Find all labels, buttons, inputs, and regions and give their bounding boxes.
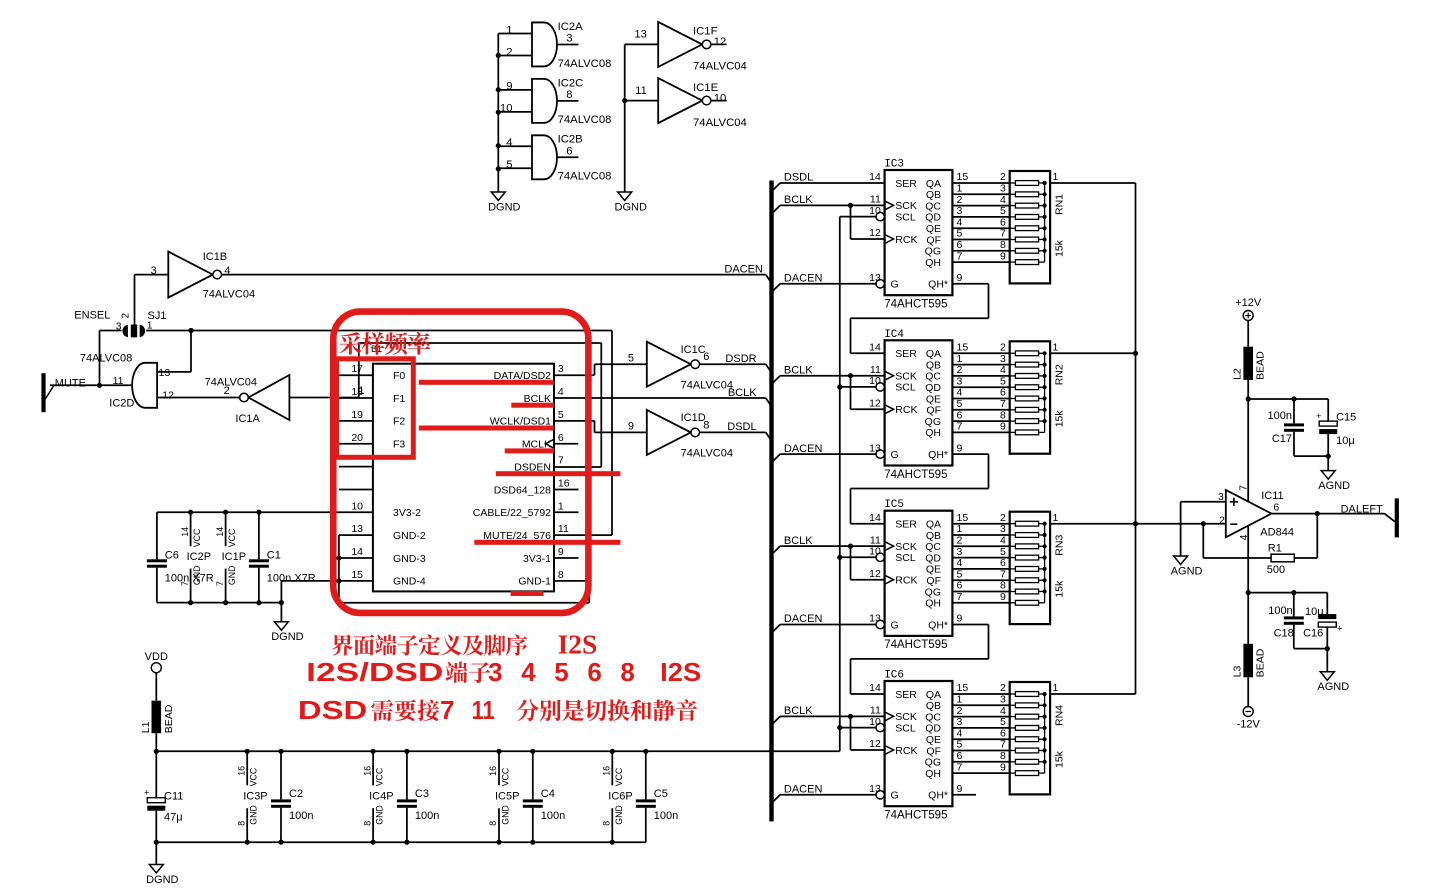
svg-text:+12V: +12V: [1235, 297, 1262, 309]
red note line 3: DSD需要接7 11 分别是切换和静音: [298, 695, 697, 725]
svg-text:3V3-2: 3V3-2: [393, 507, 421, 519]
svg-text:11: 11: [870, 194, 881, 206]
resistor network RN1 15k: [1010, 171, 1066, 283]
svg-text:9: 9: [506, 81, 512, 93]
svg-text:BEAD: BEAD: [1255, 648, 1267, 677]
svg-text:-12V: -12V: [1237, 719, 1261, 731]
svg-text:DGND: DGND: [488, 202, 520, 214]
svg-text:11: 11: [472, 695, 495, 725]
svg-text:9: 9: [957, 783, 963, 795]
svg-text:1: 1: [957, 353, 963, 365]
wire net BCLK from bus to IC3 SCK/RCK: [772, 203, 885, 239]
solder jumper SJ1: [116, 310, 167, 337]
svg-text:QC: QC: [925, 541, 941, 553]
pin label 9 QH* (IC5): [957, 613, 963, 625]
svg-text:1: 1: [957, 183, 963, 195]
power VDD: [145, 651, 168, 673]
svg-text:SCL: SCL: [895, 211, 916, 223]
wire C18/C16 bottom join to AGND: [1294, 646, 1330, 672]
wire connector pin3 DATA/DSD2 to IC1C input: [554, 364, 647, 375]
svg-text:DACEN: DACEN: [784, 613, 823, 625]
svg-text:74ALVC04: 74ALVC04: [693, 117, 747, 129]
svg-text:1: 1: [506, 24, 512, 36]
svg-text:IC2C: IC2C: [558, 77, 584, 89]
svg-text:1: 1: [1053, 171, 1059, 183]
svg-text:QB: QB: [926, 189, 941, 201]
wire net DACEN from bus to IC4 G: [772, 454, 877, 463]
svg-text:RCK: RCK: [895, 745, 917, 757]
capacitor C6 100n X7R: [147, 512, 214, 602]
svg-text:GND-4: GND-4: [393, 576, 426, 588]
svg-text:IC4P: IC4P: [369, 790, 393, 802]
svg-text:SCK: SCK: [895, 711, 917, 723]
net label DSDR (left of bus): [725, 353, 756, 365]
svg-text:15: 15: [957, 171, 969, 183]
net label DACEN (IC3): [784, 273, 823, 285]
svg-text:C4: C4: [541, 788, 555, 800]
net label DACEN (left of bus): [724, 264, 763, 276]
wire MUTE to IC2D output: [50, 383, 132, 388]
label ENSEL: [74, 309, 110, 321]
connector pin 15 GND-4 (left): [339, 569, 426, 588]
svg-text:9: 9: [957, 272, 963, 284]
svg-text:2: 2: [506, 46, 512, 58]
svg-text:7: 7: [957, 421, 963, 433]
svg-text:15k: 15k: [1053, 750, 1065, 768]
svg-text:74AHCT595: 74AHCT595: [884, 469, 947, 481]
AND gate IC2B (74ALVC08): [498, 134, 611, 183]
svg-text:7: 7: [1000, 739, 1006, 751]
red underlines on connector pin names: [419, 380, 621, 596]
svg-text:C18: C18: [1274, 627, 1294, 639]
svg-text:7: 7: [440, 695, 454, 725]
AND gate IC2C (74ALVC08): [498, 77, 611, 126]
net label DSDL (left of bus): [727, 421, 756, 433]
shift register IC3 74AHCT595 body: [869, 159, 952, 311]
wires IC5 outputs QA-QH to RN3: [952, 512, 1009, 603]
svg-text:7: 7: [558, 455, 564, 467]
svg-text:6: 6: [957, 580, 963, 592]
svg-text:7: 7: [957, 761, 963, 773]
svg-text:RN3: RN3: [1053, 535, 1065, 556]
svg-text:74ALVC04: 74ALVC04: [681, 448, 733, 460]
power pins IC2P: [180, 512, 211, 602]
wires IC4 outputs QA-QH to RN2: [952, 342, 1009, 433]
svg-text:VCC: VCC: [192, 528, 202, 547]
svg-text:GND-1: GND-1: [518, 576, 551, 588]
svg-text:3V3-1: 3V3-1: [523, 553, 551, 565]
svg-text:QB: QB: [926, 530, 941, 542]
svg-text:13: 13: [634, 29, 647, 41]
svg-text:G: G: [891, 619, 899, 631]
svg-text:12: 12: [714, 36, 727, 48]
svg-text:DACEN: DACEN: [784, 784, 823, 796]
svg-text:2: 2: [957, 364, 963, 376]
wire net DACEN from bus to IC5 G: [772, 625, 877, 634]
capacitor C1 100n X7R: [249, 512, 316, 602]
capacitor C2 100n: [271, 751, 313, 842]
svg-text:2: 2: [1219, 515, 1225, 527]
svg-text:7: 7: [1237, 485, 1249, 491]
svg-text:11: 11: [870, 364, 881, 376]
svg-text:6: 6: [566, 145, 572, 157]
red note line 2: I2S/DSD端子3 4 5 6 8 I2S: [306, 657, 701, 687]
svg-text:100n: 100n: [541, 810, 565, 822]
wire net DACEN from bus to IC3 G: [772, 284, 877, 293]
svg-text:9: 9: [1000, 591, 1006, 603]
svg-text:15: 15: [957, 512, 969, 524]
wire net DACEN from IC1B to bus: [135, 275, 772, 325]
svg-text:5: 5: [558, 409, 564, 421]
connector pin 10 3V3-2 (left): [351, 500, 421, 519]
wire chain from IC4 QH* to IC5 SER: [851, 454, 989, 524]
svg-text:QH*: QH*: [928, 790, 948, 802]
ground DGND (left block): [271, 603, 303, 644]
svg-text:8: 8: [488, 821, 498, 826]
red text 采样频率: [339, 332, 430, 355]
wire SCL stub IC3: [840, 216, 876, 218]
connector pin 14 GND-3 (left): [339, 546, 426, 565]
svg-text:BCLK: BCLK: [784, 194, 813, 206]
connector pin 11 MUTE/24_576 (right): [483, 523, 569, 542]
svg-text:8: 8: [1000, 239, 1006, 251]
shift register IC4 74AHCT595 body: [869, 329, 952, 481]
svg-text:8: 8: [602, 821, 612, 826]
svg-text:10: 10: [351, 500, 363, 512]
svg-text:G: G: [891, 790, 899, 802]
svg-text:4: 4: [957, 216, 963, 228]
capacitor C15 10u (polarized): [1316, 399, 1356, 456]
svg-text:9: 9: [1000, 421, 1006, 433]
svg-text:QD: QD: [925, 552, 941, 564]
svg-text:2: 2: [957, 705, 963, 717]
net label BCLK (IC6): [784, 705, 813, 717]
wire op-amp output to DALEFT: [1272, 511, 1395, 522]
svg-text:SCK: SCK: [895, 541, 917, 553]
wire C17/C15 bottom join to AGND: [1294, 454, 1331, 471]
svg-text:74ALVC08: 74ALVC08: [558, 58, 612, 70]
svg-text:AD844: AD844: [1260, 527, 1294, 539]
power pins IC5P: [488, 751, 519, 842]
svg-text:IC1F: IC1F: [693, 26, 718, 38]
capacitor C3 100n: [397, 751, 439, 842]
inverter IC1B (74ALVC04): [151, 251, 255, 300]
svg-text:74AHCT595: 74AHCT595: [884, 810, 947, 822]
svg-text:2: 2: [1000, 682, 1006, 694]
connector pin 4 BCLK (right): [524, 386, 564, 405]
svg-text:QC: QC: [925, 371, 941, 383]
svg-text:QD: QD: [925, 212, 941, 224]
svg-text:VCC: VCC: [375, 767, 385, 786]
svg-text:5: 5: [628, 353, 634, 365]
inverter IC1D (74ALVC04): [628, 410, 733, 460]
svg-text:2: 2: [957, 535, 963, 547]
svg-text:DACEN: DACEN: [784, 273, 823, 285]
connector pin 20 F3 (left): [339, 432, 406, 451]
wire chain from IC5 QH* to IC6 SER: [851, 625, 989, 695]
svg-text:MUTE: MUTE: [55, 377, 86, 389]
wire net BCLK from bus to IC5 SCK/RCK: [772, 544, 885, 580]
bus vertical: [769, 181, 773, 822]
pin label 9 QH* (IC4): [957, 442, 963, 454]
capacitor C16 10u (polarized): [1303, 593, 1342, 649]
svg-text:4: 4: [1000, 705, 1006, 717]
svg-text:L1: L1: [140, 721, 152, 733]
connector pin 7 DSDEN (right): [514, 455, 564, 474]
svg-text:BCLK: BCLK: [784, 535, 813, 547]
svg-text:7: 7: [957, 591, 963, 603]
svg-text:16: 16: [602, 766, 612, 776]
svg-text:6: 6: [587, 657, 601, 687]
svg-text:13: 13: [869, 783, 881, 795]
wire IC1A output to IC2D pin12: [157, 397, 240, 399]
svg-text:G: G: [891, 449, 899, 461]
ground AGND (C16/C18): [1317, 672, 1349, 694]
svg-text:3: 3: [957, 546, 963, 558]
svg-text:12: 12: [869, 568, 881, 580]
svg-text:74ALVC04: 74ALVC04: [203, 288, 255, 300]
wire op-amp +input to AGND: [1181, 502, 1226, 556]
svg-text:10μ: 10μ: [1336, 435, 1355, 447]
svg-text:QC: QC: [925, 200, 941, 212]
svg-text:VCC: VCC: [227, 528, 237, 547]
port DALEFT: [1341, 498, 1399, 537]
svg-text:IC2P: IC2P: [187, 551, 211, 563]
svg-text:CABLE/22_5792: CABLE/22_5792: [473, 507, 551, 519]
wires IC3 outputs QA-QH to RN1: [952, 171, 1009, 262]
svg-text:BCLK: BCLK: [784, 364, 813, 376]
svg-text:QA: QA: [926, 519, 941, 531]
svg-text:7: 7: [1000, 398, 1006, 410]
wire inverter input tie vertical: [622, 44, 627, 192]
svg-text:6: 6: [957, 750, 963, 762]
svg-text:100n: 100n: [654, 810, 678, 822]
svg-text:9: 9: [1000, 250, 1006, 262]
ground DGND (inverter cluster): [615, 192, 647, 214]
svg-text:8: 8: [362, 821, 372, 826]
svg-text:9: 9: [957, 442, 963, 454]
svg-text:QG: QG: [925, 416, 941, 428]
svg-text:AGND: AGND: [1171, 566, 1203, 578]
capacitor C18 100n: [1268, 593, 1304, 649]
svg-text:3: 3: [488, 657, 502, 687]
svg-text:8: 8: [558, 569, 564, 581]
op-amp IC11 AD844: [1218, 485, 1294, 541]
svg-text:SCK: SCK: [895, 371, 917, 383]
svg-text:I2S/DSD: I2S/DSD: [306, 657, 443, 687]
svg-text:74ALVC04: 74ALVC04: [693, 61, 747, 73]
svg-text:IC3: IC3: [884, 159, 904, 171]
svg-text:100n: 100n: [1268, 605, 1292, 617]
inverter IC1C (74ALVC04): [628, 342, 733, 392]
svg-text:QH*: QH*: [928, 449, 948, 461]
svg-text:QH: QH: [925, 768, 941, 780]
svg-text:7: 7: [180, 581, 190, 586]
wire GND rail (bottom): [154, 840, 646, 845]
connector pin 18 F1 (left): [339, 386, 406, 405]
wire net BCLK from bus to IC6 SCK/RCK: [772, 714, 885, 750]
svg-text:4: 4: [1000, 194, 1006, 206]
port MUTE: [41, 373, 86, 412]
svg-text:GND: GND: [375, 805, 385, 825]
svg-text:14: 14: [215, 527, 225, 537]
svg-text:L3: L3: [1232, 665, 1244, 677]
wire RN3 pin1 to summing line: [1050, 512, 1135, 524]
svg-text:+: +: [1337, 624, 1342, 634]
resistor network RN2 15k: [1010, 341, 1066, 453]
svg-text:15: 15: [957, 682, 969, 694]
svg-text:2: 2: [121, 313, 132, 319]
svg-text:12: 12: [162, 390, 174, 402]
svg-text:8: 8: [236, 821, 246, 826]
AND gate IC2A (74ALVC08): [498, 21, 611, 70]
ground AGND (op-amp +input): [1171, 556, 1203, 578]
connector B1 body: [371, 344, 554, 591]
wire AND-gate input tie vertical: [496, 34, 501, 193]
svg-text:14: 14: [869, 682, 881, 694]
svg-text:GND-3: GND-3: [393, 553, 426, 565]
svg-text:QH: QH: [925, 257, 941, 269]
svg-text:SER: SER: [895, 689, 917, 701]
svg-text:C1: C1: [267, 550, 281, 562]
svg-text:15k: 15k: [1053, 410, 1065, 428]
svg-text:14: 14: [351, 546, 363, 558]
svg-text:IC2A: IC2A: [558, 21, 584, 33]
ground AGND (C15/C17): [1318, 471, 1350, 493]
svg-text:20: 20: [351, 432, 363, 444]
svg-text:47μ: 47μ: [164, 812, 183, 824]
svg-text:4: 4: [957, 557, 963, 569]
svg-text:5: 5: [1000, 716, 1006, 728]
svg-text:C11: C11: [164, 791, 183, 803]
wire SCL chain vertical to VCC rail: [839, 217, 841, 752]
svg-text:IC1D: IC1D: [681, 412, 706, 424]
red inner box around F0-F3: [337, 359, 414, 458]
svg-text:1: 1: [957, 523, 963, 535]
svg-text:VDD: VDD: [145, 651, 168, 663]
svg-text:100n: 100n: [289, 810, 313, 822]
wire IC2D pin13: [157, 371, 191, 373]
svg-text:DSD: DSD: [298, 695, 367, 725]
svg-text:16: 16: [236, 766, 246, 776]
svg-text:6: 6: [1000, 216, 1006, 228]
svg-text:1: 1: [1053, 512, 1059, 524]
label 74ALVC08 (IC2D): [80, 353, 132, 365]
svg-text:RN1: RN1: [1053, 194, 1065, 215]
svg-text:1: 1: [1053, 342, 1059, 354]
svg-text:+: +: [1316, 411, 1321, 421]
svg-text:12: 12: [869, 398, 881, 410]
svg-text:RCK: RCK: [895, 575, 917, 587]
wire net BCLK from bus to IC4 SCK/RCK: [772, 373, 885, 409]
svg-text:13: 13: [159, 367, 171, 379]
svg-text:DGND: DGND: [271, 631, 303, 643]
svg-text:74ALVC04: 74ALVC04: [205, 377, 257, 389]
svg-text:SER: SER: [895, 348, 917, 360]
svg-text:IC1P: IC1P: [222, 551, 246, 563]
svg-text:IC3P: IC3P: [243, 790, 267, 802]
svg-text:10: 10: [869, 716, 881, 728]
svg-text:IC1C: IC1C: [681, 344, 706, 356]
svg-text:IC1B: IC1B: [203, 251, 227, 263]
svg-text:10μ: 10μ: [1305, 606, 1324, 618]
wire net DSDL from bus to IC3 SER: [772, 183, 885, 192]
svg-text:QF: QF: [926, 575, 941, 587]
capacitor C4 100n: [523, 751, 565, 842]
svg-text:7: 7: [1000, 568, 1006, 580]
wire RN2 pin1 to summing line: [1050, 342, 1135, 354]
svg-text:DSDR: DSDR: [725, 353, 756, 365]
wire net DSDR from IC1C to bus: [700, 364, 772, 373]
svg-text:SCL: SCL: [895, 382, 916, 394]
svg-text:5: 5: [957, 398, 963, 410]
svg-text:16: 16: [488, 766, 498, 776]
pin label 9 QH* (IC6): [957, 783, 963, 795]
svg-text:QD: QD: [925, 723, 941, 735]
svg-text:1: 1: [957, 694, 963, 706]
svg-text:74ALVC08: 74ALVC08: [558, 171, 612, 183]
svg-text:I2S: I2S: [558, 630, 598, 660]
wire DSDEN net: IC1A input loop to connector pin7: [289, 343, 601, 467]
svg-text:15k: 15k: [1053, 239, 1065, 257]
inductor L2 ferrite bead: [1232, 321, 1267, 380]
svg-text:QD: QD: [925, 382, 941, 394]
wire DGND rail (left block): [157, 600, 284, 605]
svg-text:DGND: DGND: [615, 202, 647, 214]
capacitor C5 100n: [636, 751, 678, 842]
svg-text:QE: QE: [926, 393, 941, 405]
svg-text:SCK: SCK: [895, 200, 917, 212]
svg-text:3: 3: [566, 33, 572, 45]
svg-text:IC5P: IC5P: [495, 790, 519, 802]
svg-text:2: 2: [1000, 342, 1006, 354]
connector pin 5 WCLK/DSD1 (right): [490, 409, 564, 428]
power pins IC3P: [236, 751, 267, 842]
svg-text:C15: C15: [1336, 411, 1356, 423]
svg-text:74ALVC08: 74ALVC08: [558, 114, 612, 126]
svg-text:IC11: IC11: [1261, 490, 1283, 502]
svg-text:4: 4: [957, 727, 963, 739]
wire VCC rail (bottom): [154, 749, 840, 754]
svg-text:F1: F1: [393, 393, 405, 405]
connector pin 8 GND-1 (right): [518, 569, 564, 588]
svg-text:3: 3: [957, 716, 963, 728]
svg-text:3: 3: [957, 205, 963, 217]
inductor L3 ferrite bead: [1232, 644, 1267, 678]
svg-text:8: 8: [1000, 580, 1006, 592]
wire connector GND pins 13/14/15: [281, 535, 589, 603]
svg-text:VCC: VCC: [614, 767, 624, 786]
wire summing vertical (RN outputs): [1133, 183, 1138, 694]
shift register IC5 74AHCT595 body: [869, 499, 952, 651]
connector pin NC (left): [339, 488, 373, 490]
resistor R1 500 feedback: [1203, 514, 1317, 576]
svg-text:QG: QG: [925, 757, 941, 769]
shift register IC6 74AHCT595 body: [869, 670, 952, 822]
svg-text:6: 6: [558, 432, 564, 444]
svg-text:3: 3: [957, 375, 963, 387]
svg-text:8: 8: [1000, 750, 1006, 762]
svg-text:QB: QB: [926, 700, 941, 712]
wire net DSDL from IC1D to bus: [700, 432, 772, 441]
net label DACEN (IC6): [784, 784, 823, 796]
svg-text:7: 7: [1000, 228, 1006, 240]
svg-text:+: +: [144, 788, 149, 798]
svg-text:5: 5: [554, 657, 568, 687]
svg-text:QC: QC: [925, 711, 941, 723]
svg-text:3: 3: [1000, 694, 1006, 706]
svg-text:QA: QA: [926, 178, 941, 190]
